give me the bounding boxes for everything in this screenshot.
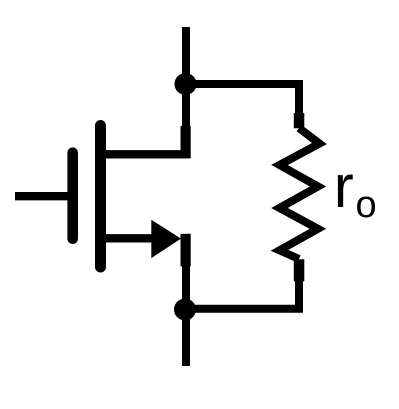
source terminal stub — [181, 234, 191, 267]
resistor zigzag body — [280, 128, 320, 259]
source line — [100, 234, 154, 242]
node drain (top junction) — [175, 73, 197, 95]
source arrow — [151, 220, 181, 258]
drain terminal stub — [181, 126, 191, 158]
wire source to bottom node — [182, 264, 190, 309]
node source (bottom junction) — [174, 299, 196, 321]
gate lead wire — [15, 192, 68, 200]
drain line — [100, 150, 187, 158]
resistor ro — [280, 113, 320, 281]
channel bar — [95, 126, 106, 268]
resistor top terminal stub — [294, 113, 305, 128]
resistor bottom terminal stub — [294, 259, 305, 281]
transistor M1 (NMOS) — [15, 126, 191, 268]
wire bottom horizontal from resistor — [186, 281, 299, 309]
wire top drain lead — [182, 27, 190, 126]
wire top horizontal to resistor — [186, 84, 299, 114]
svg-text:o: o — [356, 184, 377, 226]
wire bottom source lead — [182, 308, 190, 366]
svg-text:r: r — [334, 153, 354, 220]
gate bar — [67, 153, 78, 239]
